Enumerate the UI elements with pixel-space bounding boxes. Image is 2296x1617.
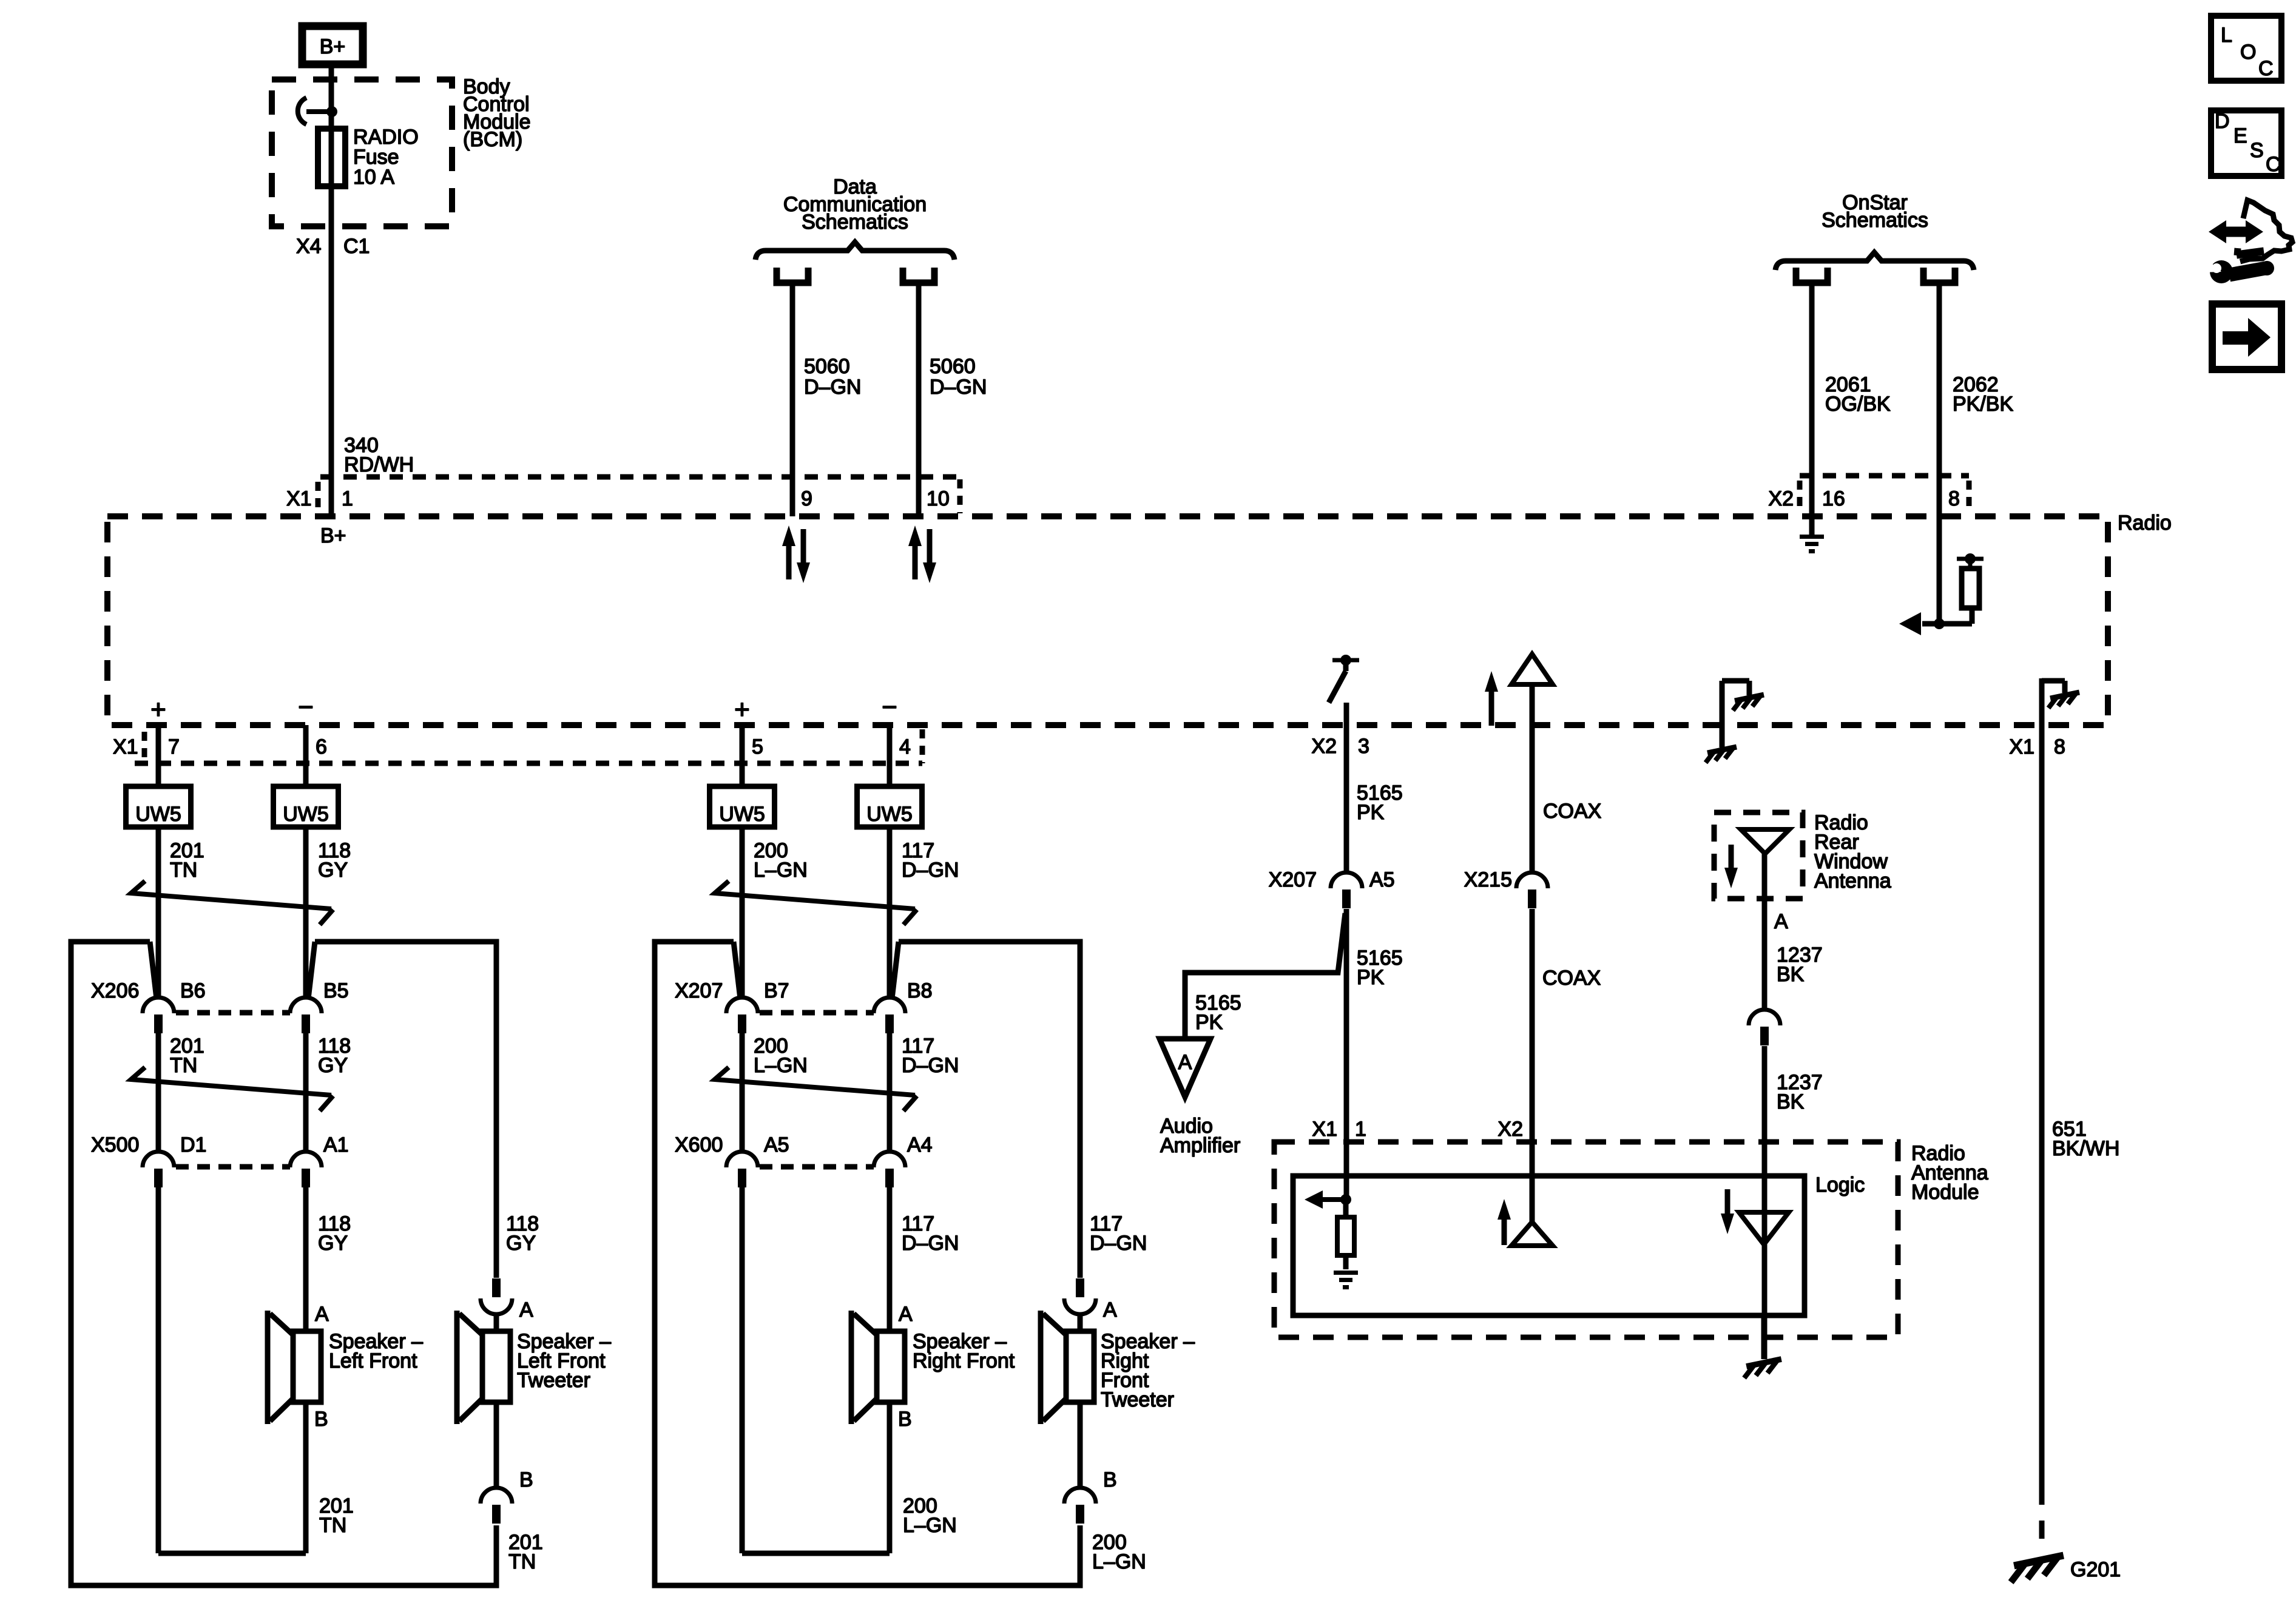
wire 5060 D-GN to pin 10 bbox=[916, 283, 922, 516]
tweeter terminal B bbox=[1103, 1468, 1117, 1491]
wire 117 D-GN mid bbox=[887, 1033, 893, 1153]
svg-text:X206: X206 bbox=[91, 979, 139, 1002]
wire label 5060 D-GN left bbox=[804, 355, 861, 399]
connector in 1237 BK bbox=[1749, 1010, 1780, 1045]
svg-text:B7: B7 bbox=[764, 979, 789, 1002]
svg-text:G201: G201 bbox=[2070, 1558, 2121, 1581]
svg-text:B+: B+ bbox=[320, 524, 346, 547]
svg-text:Logic: Logic bbox=[1815, 1173, 1865, 1197]
Body Control Module (BCM) dashed box bbox=[272, 79, 452, 226]
svg-text:X4: X4 bbox=[296, 235, 322, 258]
svg-text:A5: A5 bbox=[764, 1133, 789, 1156]
radio top pin row X2 dashed box bbox=[1800, 476, 1969, 512]
pin 6 label bbox=[316, 735, 327, 758]
connector X500 cavity D1 bbox=[143, 1152, 174, 1187]
svg-text:D–GN: D–GN bbox=[902, 1054, 959, 1077]
svg-text:−: − bbox=[882, 692, 897, 722]
option box UW5 201 TN bbox=[126, 786, 191, 827]
wire tweeter A bbox=[1078, 1314, 1083, 1332]
twisted pair symbol upper bbox=[131, 881, 333, 925]
svg-text:8: 8 bbox=[2054, 735, 2065, 758]
wire 5165 PK to antenna module X1-1 bbox=[1344, 909, 1349, 1200]
resistor to ground in logic bbox=[1337, 1200, 1354, 1269]
tweeter terminal B bbox=[519, 1468, 533, 1491]
svg-text:A4: A4 bbox=[907, 1133, 933, 1156]
pin label X1 bottom bbox=[113, 735, 138, 758]
svg-text:X500: X500 bbox=[91, 1133, 139, 1156]
wire 200 L-GN mid bbox=[740, 1033, 745, 1153]
chassis ground below antenna module bbox=[1744, 1359, 1781, 1378]
svg-text:PK/BK: PK/BK bbox=[1953, 393, 2013, 416]
svg-text:A: A bbox=[1103, 1298, 1117, 1322]
wire 117 D-GN to door connector bbox=[887, 827, 893, 999]
svg-text:B: B bbox=[1103, 1468, 1117, 1491]
svg-text:L: L bbox=[2221, 24, 2232, 47]
wire tweeter B bbox=[1078, 1402, 1083, 1488]
wire speaker B to loop bbox=[303, 1402, 309, 1553]
connector X500 cavity A1 bbox=[290, 1152, 322, 1187]
connector X207 cavity A5 bbox=[1331, 873, 1362, 908]
svg-text:O: O bbox=[2240, 41, 2256, 64]
tweeter connector A bbox=[1064, 1278, 1096, 1314]
tweeter connector B bbox=[481, 1488, 512, 1524]
wire label 117 tweeter branch bbox=[1090, 1212, 1147, 1255]
svg-text:Schematics: Schematics bbox=[802, 211, 908, 234]
svg-text:Right Front: Right Front bbox=[913, 1349, 1015, 1372]
svg-text:UW5: UW5 bbox=[135, 803, 181, 826]
connector dashed link lower bbox=[760, 1164, 874, 1170]
module pin label X2 bbox=[1497, 1118, 1523, 1141]
svg-text:TN: TN bbox=[170, 1054, 197, 1077]
audio amplifier symbol A bbox=[1160, 1039, 1210, 1097]
svg-text:L–GN: L–GN bbox=[754, 1054, 808, 1077]
wire label 200 L-GN upper bbox=[754, 839, 808, 882]
wire tweeter A bbox=[494, 1314, 499, 1332]
wire tweeter B bbox=[494, 1402, 499, 1488]
wrench icon bbox=[2200, 255, 2274, 283]
tweeter terminal A bbox=[519, 1298, 533, 1322]
Radio Rear Window Antenna dashed box bbox=[1714, 812, 1803, 899]
rear window antenna symbol bbox=[1741, 829, 1789, 854]
speaker left front label bbox=[329, 1330, 423, 1372]
branch wire 5165 PK to audio amplifier bbox=[1185, 913, 1345, 1039]
svg-text:GY: GY bbox=[318, 1054, 348, 1077]
svg-text:B8: B8 bbox=[907, 979, 933, 1002]
radio bottom pin row dashed box bbox=[135, 729, 922, 763]
svg-text:OG/BK: OG/BK bbox=[1825, 393, 1891, 416]
ground symbol in logic bbox=[1334, 1271, 1358, 1289]
wire label 5060 D-GN right bbox=[930, 355, 987, 399]
svg-text:D–GN: D–GN bbox=[1090, 1232, 1147, 1255]
svg-text:BK: BK bbox=[1777, 1090, 1805, 1113]
polarity + pin 5 bbox=[734, 695, 750, 724]
svg-text:16: 16 bbox=[1822, 487, 1845, 510]
pin label X1 / 8 right bbox=[2009, 735, 2065, 758]
wire radio pin to UW5 117 D-GN upper bbox=[887, 725, 893, 786]
wire 200 L-GN to speaker loop bbox=[742, 1187, 890, 1553]
wire label COAX upper bbox=[1543, 800, 1601, 823]
svg-text:TN: TN bbox=[508, 1550, 536, 1573]
pin 9 label bbox=[801, 487, 812, 510]
svg-text:B6: B6 bbox=[180, 979, 206, 1002]
wire label 201 TN upper bbox=[170, 839, 204, 882]
connector dashed link lower bbox=[176, 1164, 290, 1170]
off-page bracket OnStar pin 16 bbox=[1796, 268, 1828, 283]
svg-text:A1: A1 bbox=[323, 1133, 349, 1156]
tweeter branch wire right bbox=[308, 942, 496, 1278]
svg-text:C1: C1 bbox=[343, 235, 370, 258]
wire label 117 D-GN upper bbox=[902, 839, 959, 882]
antenna symbol inside radio bbox=[1511, 654, 1553, 684]
svg-text:B: B bbox=[898, 1408, 912, 1431]
svg-text:Radio: Radio bbox=[2118, 511, 2172, 535]
wire label 200 at speaker B bbox=[903, 1494, 957, 1537]
pin 16 label bbox=[1822, 487, 1845, 510]
pin 4 label bbox=[899, 735, 911, 758]
connector X600 cavity A5 bbox=[726, 1152, 758, 1187]
svg-text:A: A bbox=[1178, 1051, 1192, 1074]
speaker right front tweeter label bbox=[1101, 1330, 1195, 1411]
ground G201 bbox=[2011, 1556, 2121, 1582]
wire label 118 GY lower bbox=[318, 1212, 351, 1255]
wire 118 GY to speaker A bbox=[303, 1187, 309, 1331]
wire 651 BK/WH bbox=[2039, 725, 2045, 1487]
polarity + pin 7 bbox=[150, 695, 166, 724]
svg-text:(BCM): (BCM) bbox=[463, 128, 522, 151]
polarity - pin 6 bbox=[298, 692, 314, 722]
svg-text:3: 3 bbox=[1358, 735, 1369, 758]
connector X215 bbox=[1516, 873, 1548, 908]
Radio module dashed box bbox=[107, 516, 2108, 725]
internal resistor network at X2-8 bbox=[1899, 553, 1984, 635]
svg-text:X2: X2 bbox=[1497, 1118, 1523, 1141]
speaker right front tweeter bbox=[1041, 1311, 1094, 1424]
tweeter terminal A bbox=[1103, 1298, 1117, 1322]
svg-text:X207: X207 bbox=[675, 979, 723, 1002]
twisted pair symbol lower bbox=[131, 1067, 333, 1111]
connector X207 cavity B8 bbox=[874, 998, 905, 1033]
svg-text:COAX: COAX bbox=[1542, 967, 1601, 990]
svg-text:X2: X2 bbox=[1768, 487, 1794, 510]
connector label X4 / C1 bbox=[296, 235, 370, 258]
wire speaker B to loop bbox=[887, 1402, 893, 1553]
Audio Amplifier label bbox=[1160, 1115, 1240, 1157]
svg-text:PK: PK bbox=[1357, 966, 1385, 989]
connector X206 cavity B5 bbox=[290, 998, 322, 1033]
Radio label bbox=[2118, 511, 2172, 535]
tweeter branch wire left bbox=[71, 942, 496, 1585]
speaker left front tweeter bbox=[457, 1311, 510, 1424]
svg-text:Tweeter: Tweeter bbox=[1101, 1388, 1174, 1411]
connector X215 label bbox=[1464, 868, 1512, 891]
svg-text:BK: BK bbox=[1777, 963, 1805, 986]
fuse RADIO Fuse 10 A bbox=[318, 129, 345, 186]
tweeter branch wire right bbox=[892, 942, 1080, 1278]
wire COAX to antenna module X2 bbox=[1530, 909, 1535, 1222]
svg-text:D: D bbox=[2215, 110, 2230, 133]
svg-text:D–GN: D–GN bbox=[902, 859, 959, 882]
antenna symbol in logic bbox=[1511, 1222, 1553, 1246]
svg-text:B: B bbox=[314, 1408, 328, 1431]
DESC icon box bbox=[2211, 110, 2281, 176]
svg-text:+: + bbox=[734, 695, 750, 724]
svg-text:UW5: UW5 bbox=[283, 803, 329, 826]
svg-text:10: 10 bbox=[927, 487, 950, 510]
svg-text:COAX: COAX bbox=[1543, 800, 1601, 823]
off-page bracket serial data pin 10 bbox=[903, 268, 934, 283]
wire label 5165 PK mid bbox=[1357, 947, 1403, 989]
svg-text:A5: A5 bbox=[1369, 868, 1395, 891]
radio chassis ground at X1-8 bbox=[2042, 678, 2079, 725]
up arrow in logic bbox=[1497, 1199, 1511, 1245]
ground symbol at X2-16 bbox=[1800, 516, 1824, 553]
pin label X1 top bbox=[286, 487, 312, 510]
svg-text:D–GN: D–GN bbox=[902, 1232, 959, 1255]
power feed B+ box bbox=[302, 26, 363, 64]
svg-text:4: 4 bbox=[899, 735, 911, 758]
speaker right front bbox=[851, 1311, 905, 1424]
svg-text:A: A bbox=[315, 1303, 329, 1326]
wire radio pin to UW5 201 TN upper bbox=[156, 725, 161, 786]
pin 5 label bbox=[752, 735, 763, 758]
svg-text:S: S bbox=[2250, 139, 2264, 162]
wire label 200 at tweeter B bbox=[1092, 1531, 1146, 1573]
svg-text:UW5: UW5 bbox=[866, 803, 913, 826]
svg-text:X2: X2 bbox=[1311, 735, 1337, 758]
off-page bracket OnStar pin 8 bbox=[1923, 268, 1955, 283]
wire 651 BK/WH dashed segment bbox=[2039, 1487, 2045, 1548]
connector X600 cavity A4 bbox=[874, 1152, 905, 1187]
wire 118 GY mid bbox=[303, 1033, 309, 1153]
wire 201 TN to speaker loop bbox=[158, 1187, 306, 1553]
svg-text:1: 1 bbox=[1355, 1118, 1366, 1141]
connector X206 labels bbox=[91, 979, 349, 1002]
connector dashed link upper bbox=[176, 1010, 290, 1016]
radio chassis ground above bottom edge bbox=[1706, 681, 1764, 763]
svg-text:Left Front: Left Front bbox=[329, 1349, 417, 1372]
wire COAX from radio antenna bbox=[1530, 684, 1535, 874]
svg-text:B: B bbox=[519, 1468, 533, 1491]
twisted pair symbol lower bbox=[715, 1067, 917, 1111]
wire label 201 at speaker B bbox=[319, 1494, 354, 1537]
svg-text:RD/WH: RD/WH bbox=[344, 453, 414, 476]
wire 1237 BK lower bbox=[1762, 1046, 1768, 1359]
wire label 5165 PK upper bbox=[1357, 781, 1403, 824]
module pin labels X1 / 1 bbox=[1312, 1118, 1366, 1141]
svg-text:Schematics: Schematics bbox=[1822, 209, 1928, 232]
pin label X2 top bbox=[1768, 487, 1794, 510]
wire 2061 OG/BK bbox=[1809, 283, 1815, 516]
bidirectional arrows pin 10 bbox=[908, 525, 936, 583]
connector X207 cavity A5 labels bbox=[1269, 868, 1395, 891]
svg-text:PK: PK bbox=[1357, 801, 1385, 824]
wire radio pin to UW5 200 L-GN upper bbox=[740, 725, 745, 786]
bidirectional arrows pin 9 bbox=[782, 525, 810, 583]
wire 1237 BK through logic to chassis ground bbox=[1761, 1315, 1767, 1359]
svg-text:−: − bbox=[298, 692, 314, 722]
wire label 200 L-GN mid bbox=[754, 1035, 808, 1077]
logic input arrow at X1-1 bbox=[1305, 1190, 1351, 1209]
svg-text:TN: TN bbox=[170, 859, 197, 882]
forward arrow icon box bbox=[2212, 304, 2281, 370]
svg-text:9: 9 bbox=[801, 487, 812, 510]
speaker right front terminal B bbox=[898, 1408, 912, 1431]
svg-text:5: 5 bbox=[752, 735, 763, 758]
connector X207 labels bbox=[675, 979, 933, 1002]
svg-text:UW5: UW5 bbox=[719, 803, 765, 826]
connector X207 cavity B7 bbox=[726, 998, 758, 1033]
wire 201 TN mid bbox=[156, 1033, 161, 1153]
wire label COAX lower bbox=[1542, 967, 1601, 990]
svg-text:GY: GY bbox=[318, 1232, 348, 1255]
svg-text:TN: TN bbox=[319, 1514, 346, 1537]
svg-text:X1: X1 bbox=[1312, 1118, 1337, 1141]
twisted pair symbol upper bbox=[715, 881, 917, 925]
wire 1237 BK upper bbox=[1762, 854, 1768, 1011]
wire label 2061 OG/BK bbox=[1825, 373, 1891, 416]
svg-text:B+: B+ bbox=[320, 35, 346, 58]
svg-text:A: A bbox=[1774, 910, 1788, 933]
svg-text:X1: X1 bbox=[286, 487, 312, 510]
tweeter connector A bbox=[481, 1278, 512, 1314]
terminal A label bbox=[1774, 910, 1788, 933]
svg-text:X215: X215 bbox=[1464, 868, 1512, 891]
wire label 1237 BK upper bbox=[1777, 944, 1823, 986]
svg-text:A: A bbox=[519, 1298, 533, 1322]
speaker left front tweeter label bbox=[517, 1330, 611, 1392]
svg-text:Amplifier: Amplifier bbox=[1160, 1134, 1240, 1157]
svg-text:L–GN: L–GN bbox=[754, 859, 808, 882]
radio top pin row X1 dashed box bbox=[318, 477, 960, 513]
polarity - pin 4 bbox=[882, 692, 897, 722]
wire 340 RD/WH from B+ through BCM to Radio X1-1 bbox=[329, 68, 334, 516]
wire label 118 GY mid bbox=[318, 1035, 351, 1077]
connector X600 labels bbox=[675, 1133, 933, 1156]
OnStar Schematics label bbox=[1822, 191, 1928, 232]
svg-text:X600: X600 bbox=[675, 1133, 723, 1156]
wire 5060 D-GN to pin 9 bbox=[790, 283, 795, 516]
svg-text:10 A: 10 A bbox=[353, 166, 394, 189]
svg-text:8: 8 bbox=[1948, 487, 1960, 510]
speaker right front terminal A bbox=[899, 1303, 913, 1326]
down arrow in antenna box bbox=[1724, 845, 1738, 888]
brace for data communication bbox=[755, 242, 954, 260]
speaker left front terminal B bbox=[314, 1408, 328, 1431]
pin 8 label bbox=[1948, 487, 1960, 510]
Logic label bbox=[1815, 1173, 1865, 1197]
wire 118 GY to door connector bbox=[303, 827, 309, 999]
speaker right front label bbox=[913, 1330, 1015, 1372]
BCM label bbox=[463, 75, 531, 151]
Logic box bbox=[1293, 1176, 1805, 1315]
svg-text:5060: 5060 bbox=[804, 355, 850, 378]
LOC icon box bbox=[2211, 16, 2281, 81]
wire label 340 RD/WH bbox=[344, 434, 414, 476]
fuse label bbox=[353, 126, 419, 189]
svg-text:X207: X207 bbox=[1269, 868, 1317, 891]
wire label 117 D-GN lower bbox=[902, 1212, 959, 1255]
svg-text:5060: 5060 bbox=[930, 355, 976, 378]
svg-text:X1: X1 bbox=[113, 735, 138, 758]
tweeter connector B bbox=[1064, 1488, 1096, 1524]
Radio Antenna Module dashed box bbox=[1274, 1142, 1898, 1337]
wire label 5165 PK branch bbox=[1195, 991, 1241, 1034]
wire label 117 D-GN mid bbox=[902, 1035, 959, 1077]
wire 2062 PK/BK bbox=[1937, 283, 1942, 624]
svg-text:+: + bbox=[150, 695, 166, 724]
svg-text:BK/WH: BK/WH bbox=[2052, 1137, 2119, 1160]
pin 10 label bbox=[927, 487, 950, 510]
svg-text:B5: B5 bbox=[323, 979, 349, 1002]
svg-text:D–GN: D–GN bbox=[804, 376, 861, 399]
svg-text:Module: Module bbox=[1911, 1181, 1979, 1204]
option box UW5 200 L-GN bbox=[710, 786, 775, 827]
svg-text:C: C bbox=[2258, 57, 2274, 80]
svg-text:1: 1 bbox=[342, 487, 353, 510]
svg-text:6: 6 bbox=[316, 735, 327, 758]
svg-text:GY: GY bbox=[318, 859, 348, 882]
option box UW5 117 D-GN bbox=[857, 786, 922, 827]
connector X500 labels bbox=[91, 1133, 349, 1156]
wire 117 D-GN to speaker A bbox=[887, 1187, 893, 1331]
wire label 201 TN mid bbox=[170, 1035, 204, 1077]
svg-text:Antenna: Antenna bbox=[1814, 869, 1891, 893]
pin 7 label bbox=[168, 735, 180, 758]
Radio Rear Window Antenna label bbox=[1814, 811, 1891, 893]
option box UW5 118 GY bbox=[274, 786, 339, 827]
wire label 118 tweeter branch bbox=[506, 1212, 539, 1255]
svg-text:C: C bbox=[2266, 153, 2281, 176]
wire label 2062 PK/BK bbox=[1953, 373, 2013, 416]
svg-text:D–GN: D–GN bbox=[930, 376, 987, 399]
svg-text:A: A bbox=[899, 1303, 913, 1326]
net label B+ inside radio bbox=[320, 524, 346, 547]
wire 200 L-GN to door connector bbox=[740, 827, 745, 999]
svg-text:L–GN: L–GN bbox=[903, 1514, 957, 1537]
clip symbol at fuse feed bbox=[298, 98, 337, 124]
svg-text:7: 7 bbox=[168, 735, 180, 758]
speaker left front terminal A bbox=[315, 1303, 329, 1326]
wire label 201 at tweeter B bbox=[508, 1531, 543, 1573]
svg-text:GY: GY bbox=[506, 1232, 536, 1255]
off-page bracket serial data pin 9 bbox=[777, 268, 808, 283]
svg-text:E: E bbox=[2234, 124, 2247, 147]
svg-text:D1: D1 bbox=[180, 1133, 206, 1156]
wire label 118 GY upper bbox=[318, 839, 351, 882]
Data Communication Schematics label bbox=[783, 175, 927, 234]
speaker left front bbox=[268, 1311, 321, 1424]
wire 201 TN to door connector bbox=[156, 827, 161, 999]
connector repair icon bbox=[2209, 200, 2292, 262]
down arrow in logic bbox=[1721, 1189, 1734, 1234]
up arrow at radio antenna bbox=[1485, 671, 1498, 726]
wire 5165 PK from switch to X207 bbox=[1344, 703, 1349, 874]
wire label 651 BK/WH bbox=[2052, 1118, 2119, 1160]
tweeter branch wire left bbox=[655, 942, 1080, 1585]
internal switch at X2-3 bbox=[1329, 655, 1359, 703]
receive antenna symbol in logic bbox=[1739, 1212, 1789, 1244]
svg-text:L–GN: L–GN bbox=[1092, 1550, 1146, 1573]
wire radio pin to UW5 118 GY upper bbox=[303, 725, 309, 786]
svg-text:PK: PK bbox=[1195, 1011, 1223, 1034]
svg-text:Tweeter: Tweeter bbox=[517, 1369, 590, 1392]
pin 1 label bbox=[342, 487, 353, 510]
Radio Antenna Module label bbox=[1911, 1142, 1988, 1204]
brace for OnStar bbox=[1775, 252, 1974, 270]
svg-text:X1: X1 bbox=[2009, 735, 2034, 758]
connector X206 cavity B6 bbox=[143, 998, 174, 1033]
pin label X2 / 3 bbox=[1311, 735, 1369, 758]
